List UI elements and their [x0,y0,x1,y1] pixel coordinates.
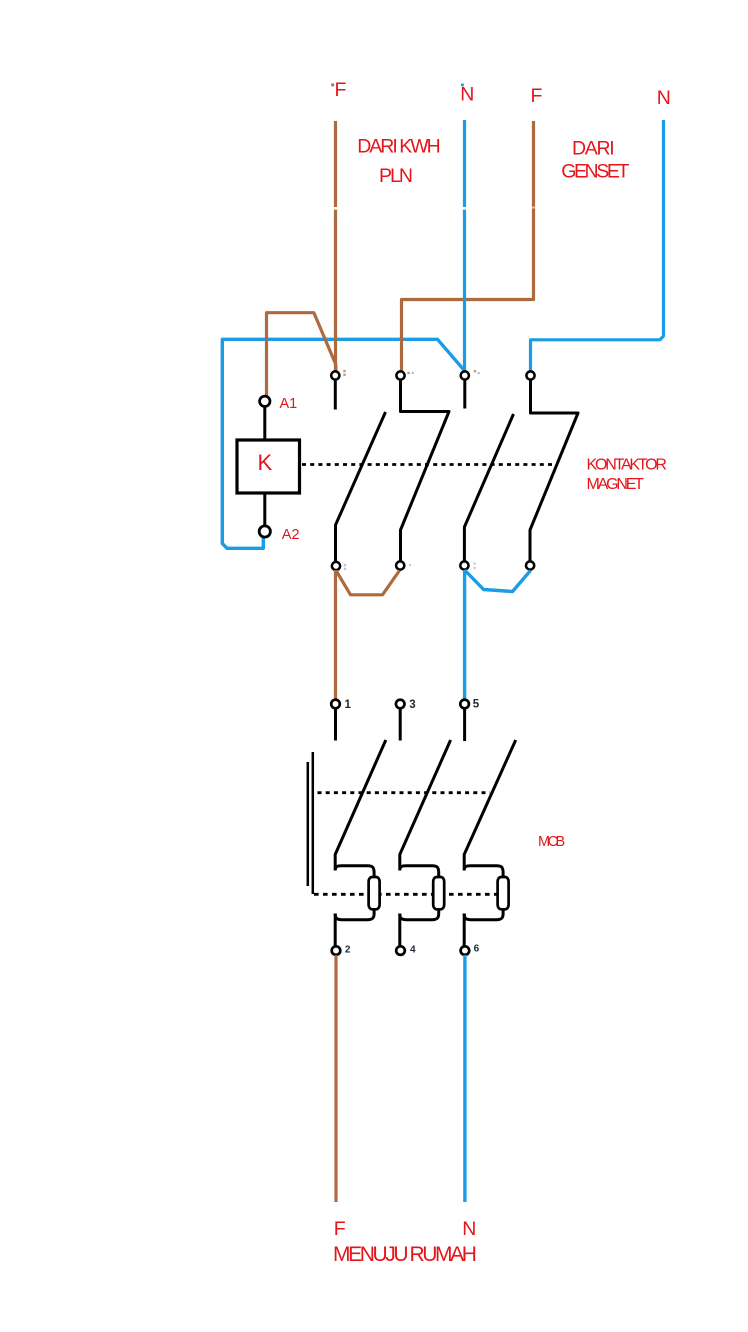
MCB pole 1 thermal element bridge top [335,866,374,878]
contactor pole 3 moving blade [464,414,513,561]
coil K box (contactor coil) [237,440,300,493]
contactor bottom terminal 1 [332,562,340,570]
svg-text:MENUJU RUMAH: MENUJU RUMAH [333,1243,476,1266]
MCB pole 2 fixed stub [399,709,402,741]
MCB top terminal 3 [396,700,405,709]
svg-text:K: K [258,450,273,475]
contactor bottom terminal 3 [460,561,468,569]
svg-text:2: 2 [345,945,351,956]
faint terminal mark 3 [474,370,476,372]
stray blue dot near N label [461,84,464,87]
MCB bottom terminal 2 [332,946,341,955]
wire N2: neutral from genset (blue, routed to contactor terminal 4) [531,120,664,371]
MCB pole 1 fixed stub [334,709,337,741]
svg-text:3: 3 [409,699,415,711]
contactor top terminal 3 [461,371,469,379]
svg-text:KONTAKTOR: KONTAKTOR [587,457,667,474]
svg-text:F: F [334,1218,346,1240]
wire A1 to coil box [263,406,266,440]
svg-text:N: N [460,84,474,106]
MCB bottom terminal 6 [461,946,470,955]
svg-text:4: 4 [410,945,416,956]
wire N1: neutral from kWh PLN (blue vertical) [463,120,466,371]
MCB pole 2 blade [400,740,451,870]
svg-text:N: N [657,87,671,109]
faint terminal mark b2 [409,564,411,566]
MCB trip bar (double vertical lines) [307,762,310,886]
svg-text:MCB: MCB [538,834,565,850]
contactor mechanical linkage dotted line [302,463,558,466]
contactor top terminal 4 [526,371,534,379]
svg-text:N: N [462,1218,476,1240]
MCB pole 2 tail to terminal 4 [398,914,401,948]
contactor pole 4 stub and blade [530,380,578,561]
terminal A2 of contactor coil [259,526,270,537]
svg-text:A1: A1 [280,396,298,412]
faint terminal mark b1 [344,564,346,566]
svg-text:F: F [531,85,543,107]
svg-text:5: 5 [473,699,480,711]
svg-text:F: F [335,79,347,101]
svg-text:GENSET: GENSET [561,161,629,183]
svg-text:6: 6 [474,944,480,955]
wire contactor output neutral down to MCB (blue) [463,570,466,700]
MCB mechanism dotted line (upper) [318,791,491,794]
MCB pole 3 thermal element bridge top [464,866,503,878]
svg-text:1: 1 [345,699,352,711]
faint terminal mark b3 [474,563,476,565]
wire coil feed: A1 to contactor top terminal 1 (brown) [267,313,336,397]
MCB pole 1 thermal element bridge bottom [335,910,374,920]
contactor pole 2 stub and blade [401,380,450,561]
wire bridge contactor outputs 1-2 (brown dip) [336,571,400,595]
svg-text:MAGNET: MAGNET [587,476,645,493]
MCB pole 3 tail to terminal 6 [463,914,466,948]
MCB pole 3 fixed stub [463,709,466,742]
wire bridge contactor outputs 3-4 (blue dip) [465,570,531,592]
contactor pole 3 fixed stub [463,380,466,409]
faint terminal mark 2 [407,372,409,374]
wire coil box to A2 [263,493,266,527]
MCB pole 1 blade [335,740,386,870]
MCB thermal dashed line (lower) [314,893,509,896]
scan artifact white band over wires [325,207,478,210]
wire L2: F phase from genset (brown, routed to contactor terminal 3) [402,121,534,371]
MCB top terminal 1 [331,700,340,709]
MCB top terminal 5 [460,700,469,709]
wire coil return: A2 loop to contactor top terminal 3 (blue) [222,339,464,548]
svg-text:PLN: PLN [379,165,412,187]
svg-text:DARI: DARI [572,138,613,160]
MCB pole 3 thermal element bridge bottom [464,910,503,920]
stray brown dot near F label [331,84,334,87]
svg-text:DARI KWH: DARI KWH [357,135,439,157]
contactor pole 1 moving blade [336,412,386,561]
MCB pole 2 thermal element bridge bottom [400,910,439,920]
MCB pole 2 thermal element bridge top [400,866,439,878]
MCB pole 3 blade [464,740,516,870]
wire MCB output phase to house (brown) [334,955,337,1202]
wire MCB output neutral to house (blue) [463,955,466,1202]
MCB bottom terminal 4 [396,946,405,955]
contactor top terminal 1 [331,371,339,379]
contactor bottom terminal 4 [526,561,534,569]
MCB pole 2 overload capsule [433,877,444,909]
faint terminal mark 1 [343,370,345,372]
MCB pole 1 overload capsule [369,877,380,909]
wire L1: F phase from kWh PLN (brown vertical) [334,121,337,371]
terminal A1 of contactor coil [260,396,270,406]
MCB pole 1 tail to terminal 2 [334,914,337,948]
contactor top terminal 2 [396,371,404,379]
MCB pole 3 overload capsule [498,877,509,909]
svg-text:A2: A2 [282,527,300,543]
contactor pole 1 fixed stub [334,380,337,410]
contactor bottom terminal 2 [396,561,404,569]
wire contactor output phase down to MCB (brown) [334,570,337,700]
